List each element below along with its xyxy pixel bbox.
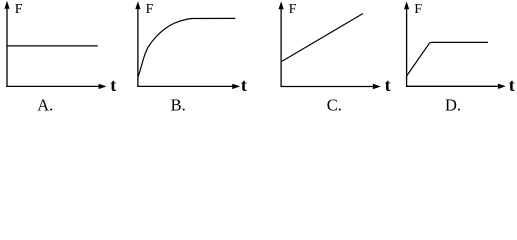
graph D: t axis (horizontal) <box>406 85 499 87</box>
svg-text:F: F <box>414 2 422 17</box>
svg-text:t: t <box>241 75 247 95</box>
graph A: t axis (horizontal) <box>6 85 100 87</box>
graph B: F axis arrowhead <box>135 1 140 9</box>
graph A: F axis (vertical) <box>6 8 8 88</box>
svg-text:D.: D. <box>445 96 461 115</box>
graph B: F axis (vertical) <box>137 8 139 87</box>
graph C: F axis (vertical) <box>280 8 282 87</box>
svg-text:t: t <box>509 75 515 95</box>
graph B: t axis arrowhead <box>232 84 240 89</box>
svg-text:F: F <box>15 2 23 17</box>
graph C: t axis (horizontal) <box>281 86 375 88</box>
svg-text:t: t <box>110 75 116 95</box>
graph D: t axis arrowhead <box>498 84 506 89</box>
svg-text:C.: C. <box>327 96 342 115</box>
graph B: t axis (horizontal) <box>137 85 233 87</box>
graph D: F axis (vertical) <box>406 8 408 87</box>
svg-text:F: F <box>146 2 154 17</box>
svg-text:B.: B. <box>171 96 186 115</box>
graph C: F axis arrowhead <box>279 1 284 9</box>
graph A: t axis arrowhead <box>99 84 107 89</box>
graph C: t axis arrowhead <box>373 84 381 89</box>
graph A: constant F line <box>7 45 98 47</box>
graph A: F axis arrowhead <box>4 1 9 9</box>
svg-text:A.: A. <box>37 96 53 115</box>
graph C: rising straight line <box>282 14 363 62</box>
graph B: saturating curve <box>138 18 235 76</box>
graph D: ramp then constant line <box>407 42 488 76</box>
svg-text:F: F <box>289 2 297 17</box>
svg-text:t: t <box>385 75 391 95</box>
graph D: F axis arrowhead <box>404 1 409 9</box>
